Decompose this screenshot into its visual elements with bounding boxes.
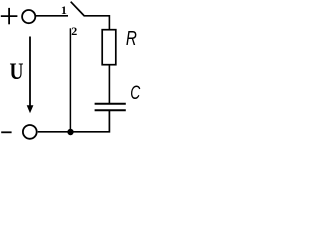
wire resistor to capacitor (108, 65, 110, 104)
svg-text:C: C (130, 83, 140, 104)
svg-text:2: 2 (71, 24, 77, 38)
svg-text:1: 1 (61, 3, 67, 17)
junction node (67, 129, 73, 135)
terminal (−) (23, 125, 37, 139)
source polarity label − (1, 131, 11, 133)
wire switch contact 2 to junction (69, 28, 71, 131)
wire from switch common to resistor R (84, 16, 110, 30)
switch S blade (71, 2, 84, 16)
svg-text:R: R (126, 28, 137, 50)
voltage arrow U (27, 37, 34, 114)
wire capacitor to bottom rail (38, 110, 110, 132)
resistor R (102, 30, 116, 65)
source polarity label + (1, 8, 18, 24)
wire from + terminal to switch contact 1 (35, 15, 68, 17)
terminal (+) (22, 10, 35, 23)
capacitor C (95, 104, 126, 111)
svg-text:U: U (10, 59, 24, 84)
